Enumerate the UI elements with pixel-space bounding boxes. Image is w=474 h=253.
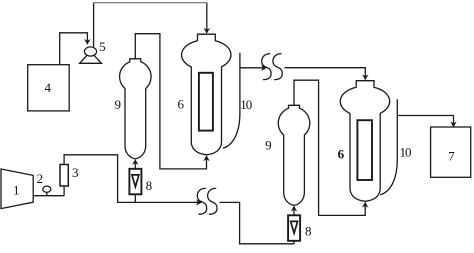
svg-text:9: 9 [114, 97, 121, 112]
svg-text:7: 7 [448, 148, 455, 163]
svg-text:10: 10 [240, 97, 252, 112]
svg-text:6: 6 [177, 96, 184, 111]
svg-text:1: 1 [13, 182, 20, 197]
svg-text:2: 2 [37, 171, 44, 186]
svg-text:5: 5 [99, 39, 106, 54]
svg-text:10: 10 [400, 144, 412, 159]
svg-text:8: 8 [146, 178, 153, 193]
svg-text:4: 4 [44, 80, 51, 95]
svg-text:3: 3 [72, 165, 79, 180]
svg-text:9: 9 [265, 137, 272, 152]
svg-text:6: 6 [338, 146, 345, 161]
svg-text:8: 8 [305, 224, 312, 239]
